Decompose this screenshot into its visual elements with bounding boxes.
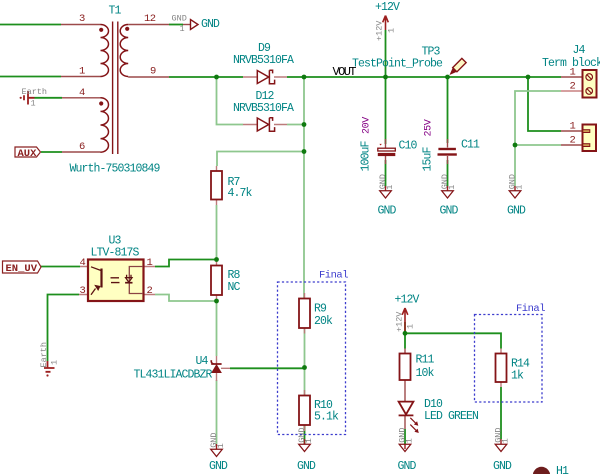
svg-text:1: 1 [501,438,511,443]
svg-text:1: 1 [447,185,457,190]
connector J4 conn2 [583,125,597,152]
svg-text:1: 1 [405,438,415,443]
svg-text:Final: Final [516,303,545,315]
svg-text:1: 1 [570,67,576,79]
diode D9 [257,70,274,84]
junction R7/R8/U3 [214,257,219,262]
ground symbol under R14 [500,439,502,444]
pin U4 leads [217,356,231,381]
svg-text:+12V: +12V [395,311,405,332]
pin R14 leads [500,349,502,388]
power GND arrow right (T1 pin12) [191,20,199,30]
svg-text:2: 2 [147,285,153,297]
pin D9 leads [243,76,287,78]
svg-text:GND: GND [201,18,220,31]
svg-text:6: 6 [79,141,85,153]
svg-text:GND: GND [507,205,526,218]
wire U3 pin2 to junction [155,295,217,302]
junction R7 top [302,149,307,154]
svg-text:1: 1 [385,185,395,190]
svg-text:TL431LIACDBZR: TL431LIACDBZR [134,369,213,382]
wire pin1 net [0,76,61,78]
svg-text:C11: C11 [461,139,480,152]
svg-text:+12V: +12V [395,294,420,307]
svg-text:C10: C10 [399,140,418,153]
T1 polarity dots [99,28,103,32]
pin GND arrow stub [183,24,190,26]
wire R7 top [217,152,304,167]
resistor R11 [400,354,411,381]
svg-text:GND: GND [172,14,187,24]
svg-text:GND: GND [493,460,512,473]
junction at TP3/C11 [445,75,450,80]
wire D12 branch [217,77,305,125]
svg-text:1: 1 [31,99,36,109]
svg-text:GND: GND [378,205,397,218]
svg-text:Earth: Earth [22,87,48,97]
pin D10 lead [404,416,406,430]
pin D12 leads [243,124,287,126]
wire +12V to rail at C10 [385,30,387,77]
pin U3 leads [79,267,155,295]
wire R9 R10 divider [304,328,306,396]
svg-text:EN_UV: EN_UV [6,263,38,275]
ground symbol under C11 [447,186,449,191]
svg-text:1: 1 [180,24,185,34]
wire junction to R14 [405,333,501,348]
junction at D9 anode [214,75,219,80]
dashed box Final (R14) [475,315,543,403]
earth symbol at T1 pin4 [24,91,35,105]
junction R8 bottom [214,299,219,304]
junction VOUT column top [302,75,307,80]
wire R7 bottom to junction [216,205,218,260]
pin T1-1 [61,76,101,78]
svg-text:GND: GND [398,460,417,473]
ground symbol J4 pin2 net [514,186,516,191]
svg-text:1: 1 [406,324,416,329]
ground symbol under R10 [304,439,306,444]
svg-text:H1: H1 [556,465,569,474]
U3 coupling arrows [111,278,120,283]
dashed box Final (R9/R10) [278,282,346,435]
svg-text:GND: GND [209,460,228,473]
resistor R9 [299,299,310,329]
wire U4 ref to divider junction [230,367,305,369]
junction at J4 [526,75,531,80]
pin R9 leads [304,293,306,334]
pin J4 conn1 leads [561,76,583,78]
svg-text:Earth: Earth [39,342,49,368]
svg-text:T1: T1 [109,5,122,18]
junction divider ref [302,365,307,370]
wire vertical VOUT column [303,77,305,299]
wire D10 cathode to GND [404,429,406,444]
power +12V bottom [402,308,408,333]
resistor R8 [211,266,222,296]
svg-text:20V: 20V [362,117,373,134]
svg-text:1: 1 [304,438,314,443]
svg-text:15uF: 15uF [422,146,435,171]
pin T1-4 [62,97,101,99]
svg-text:+12V: +12V [375,1,400,14]
svg-text:TestPoint_Probe: TestPoint_Probe [352,58,443,71]
svg-text:1k: 1k [511,370,524,383]
op-to U3 body [88,260,144,302]
wire J4 conn2 pin1 branch [528,77,561,131]
svg-text:12: 12 [144,13,156,25]
pin C10 leads [385,139,387,164]
ground symbol under D10 [404,444,406,449]
pin R10 leads [304,390,306,431]
svg-text:AUX: AUX [18,148,38,160]
svg-text:3: 3 [80,285,86,297]
U3 phototransistor [129,267,143,294]
wire R8 bottom to U4 [216,301,218,356]
D10 emission arrows [410,418,419,433]
wire R11 top [404,333,406,348]
junction J4 pin2 net [513,143,518,148]
svg-text:GND: GND [297,460,316,473]
wire U3 pin3 to earth [48,295,80,362]
svg-text:2: 2 [570,135,576,147]
pin T1-9 [128,76,169,78]
svg-text:GND: GND [440,205,459,218]
hierarchical label AUX [15,147,41,157]
svg-text:1: 1 [216,443,226,448]
pin T1-6 [62,151,101,153]
svg-text:NRVB5310FA: NRVB5310FA [233,102,294,115]
ground symbol under C10 [385,186,387,191]
testpoint TP3 probe [447,58,466,77]
svg-text:1: 1 [147,257,153,269]
svg-text:3: 3 [79,13,85,25]
resistor R14 [496,354,507,383]
svg-text:1: 1 [50,360,60,365]
shunt ref U4 TL431 [211,360,221,364]
wire U3 pin1 to junction [155,260,217,267]
svg-text:J4: J4 [573,44,586,57]
wire R10 bottom to GND [304,425,306,444]
ground symbol under U4 [216,444,218,449]
svg-text:LTV-817S: LTV-817S [91,247,140,260]
wire J4 pin2 net pale [515,91,561,186]
junction D12 cathode [302,122,307,127]
pin J4 conn2 leads [561,131,583,145]
pin R7 leads [216,166,218,205]
svg-text:1: 1 [570,121,576,133]
resistor R10 [299,396,310,426]
wire EN_UV to U3 pin4 [41,266,80,268]
svg-text:1: 1 [387,28,397,33]
wire main rail VOUT [169,76,561,78]
wire R14 bottom to GND [500,387,502,439]
svg-text:Wurth-750310849: Wurth-750310849 [70,163,161,176]
U3 internal LED [91,267,101,271]
svg-text:R11: R11 [416,354,435,367]
wire earth to pin4 [35,97,63,99]
junction R11/R14 [403,331,408,336]
svg-text:LED GREEN: LED GREEN [424,410,478,423]
svg-text:+12V: +12V [375,20,385,41]
pin T1-12 [128,24,169,26]
wire C11 leads [447,77,449,186]
svg-text:25V: 25V [424,119,435,136]
power +12V top [383,16,389,31]
wire C10 leads [385,77,387,186]
pin C11 leads [447,139,449,164]
transformer T1 [101,22,129,155]
svg-text:2: 2 [570,81,576,93]
wire AUX to pin6 [41,151,62,153]
svg-text:NC: NC [228,281,241,294]
earth symbol below U3 [44,361,55,372]
svg-text:1: 1 [515,185,525,190]
svg-text:10k: 10k [416,367,435,380]
mounting hole H1 [533,467,550,474]
svg-text:100uF: 100uF [360,140,373,171]
pin T1-3 [61,24,101,26]
svg-text:Final: Final [319,270,348,282]
connector J4 conn1 [583,70,597,98]
capacitor C10 [378,148,396,151]
wire pin3 net [0,24,61,26]
LED D10 [399,402,414,416]
capacitor C11 [438,148,456,150]
svg-text:4: 4 [79,87,85,99]
svg-text:1: 1 [79,66,85,78]
svg-text:9: 9 [150,66,156,78]
svg-text:20k: 20k [314,315,333,328]
junction at C10 [383,75,388,80]
svg-text:4: 4 [80,257,86,269]
wire U4 anode to GND [216,380,218,444]
pin R11 leads [404,349,406,402]
hierarchical label EN_UV [3,261,42,273]
svg-text:U4: U4 [196,355,209,368]
diode D12 [257,118,274,132]
svg-text:4.7k: 4.7k [228,187,253,200]
pin R8 leads [216,260,218,302]
svg-text:5.1k: 5.1k [314,411,339,424]
svg-text:NRVB5310FA: NRVB5310FA [233,54,294,67]
wire pin12 to GND [169,24,183,26]
wire +12V bottom to junction [404,322,406,333]
svg-text:R9: R9 [314,303,327,316]
resistor R7 [211,171,222,200]
